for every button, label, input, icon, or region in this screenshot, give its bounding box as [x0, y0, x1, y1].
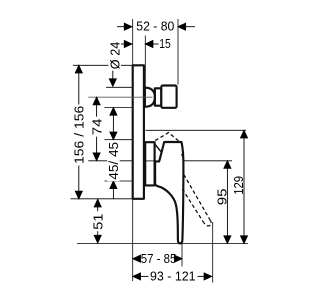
- svg-text:74: 74: [90, 119, 105, 136]
- dim 74 line: [96, 97, 98, 160]
- pivot ref across collar: [145, 160, 155, 162]
- dim 15 right arrow: [152, 43, 159, 45]
- spout centerline: [88, 96, 152, 98]
- label 74: [90, 117, 105, 137]
- svg-text:95: 95: [214, 189, 229, 206]
- ref line 129 top: [146, 129, 247, 131]
- ref line 45/45 bottom: [105, 180, 133, 182]
- ref line bottom: [77, 242, 248, 244]
- dim 129 line: [243, 130, 245, 243]
- label 51: [90, 211, 105, 231]
- label 45/ 45: [106, 140, 121, 181]
- ext line raised lever tip: [212, 222, 214, 283]
- ext line wall bottom: [132, 199, 134, 281]
- handle collar: [145, 142, 154, 185]
- svg-text:156 / 156: 156 / 156: [72, 106, 87, 164]
- ref line 45/45 top: [105, 107, 133, 109]
- dim 51 line: [97, 199, 99, 243]
- svg-text:57 - 85: 57 - 85: [141, 251, 177, 266]
- ext line wall top: [132, 19, 134, 65]
- ref line handle pivot left: [88, 160, 133, 162]
- dim 156/156 line: [78, 65, 80, 199]
- dim 95 line: [226, 161, 228, 244]
- label 93 - 121: [149, 269, 198, 284]
- dashed lever arm tip: [204, 220, 212, 226]
- svg-text:45/ 45: 45/ 45: [106, 142, 121, 180]
- dim 57-85 arrows: [133, 255, 141, 262]
- svg-text:93 - 121: 93 - 121: [150, 269, 196, 284]
- dashed lever cap (raised position): [155, 133, 180, 143]
- ref line 45/45 mid: [105, 139, 133, 141]
- ref line plate top (left): [73, 64, 133, 66]
- svg-text:51: 51: [90, 214, 105, 230]
- spout dome: [145, 88, 155, 107]
- dim 15 left arrow: [116, 43, 125, 45]
- ext line lever tip: [181, 240, 183, 267]
- ref line O24 bottom: [106, 86, 133, 88]
- spout nut: [161, 86, 176, 108]
- dim 93-121 arrows: [133, 273, 141, 280]
- spout neck: [155, 88, 161, 105]
- ext line spout end 52-80: [177, 19, 179, 85]
- handle body and lever (down position): [155, 142, 183, 243]
- svg-text:Ø 24: Ø 24: [108, 42, 123, 70]
- label O 24: [108, 41, 123, 71]
- dim 52-80 left arrow: [117, 26, 125, 28]
- svg-text:15: 15: [159, 36, 171, 51]
- dim O24 line and arrow: [112, 66, 114, 80]
- ref line handle pivot right: [184, 160, 232, 162]
- ref line plate bottom (left): [71, 198, 133, 200]
- dim 45/45 line: [112, 108, 114, 199]
- dim 52-80 right arrow: [185, 26, 195, 28]
- ext line plate face 15: [144, 36, 146, 89]
- dashed lever arm lower edge: [182, 189, 203, 222]
- lever underside edge: [155, 145, 162, 153]
- svg-text:129: 129: [231, 176, 246, 195]
- wall plate (escutcheon, side view): [133, 65, 144, 199]
- dashed lever edge fragment: [182, 154, 184, 158]
- label 156 / 156: [72, 105, 87, 166]
- dashed lever arm upper edge: [184, 175, 210, 220]
- svg-text:52 - 80: 52 - 80: [136, 18, 174, 33]
